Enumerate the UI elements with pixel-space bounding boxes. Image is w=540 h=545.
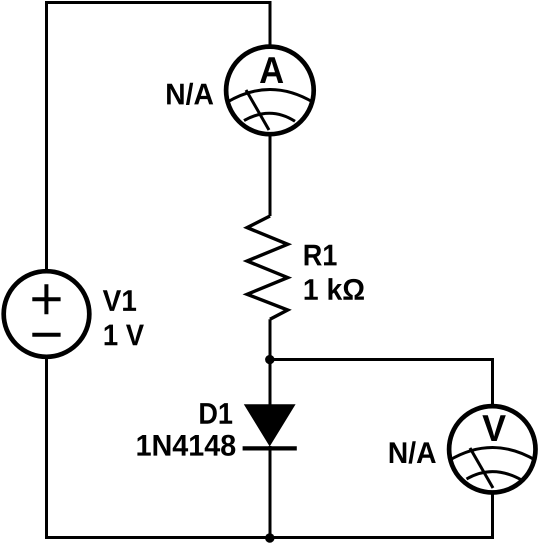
wire bottom loop: V1 bottom, bottom rail, up to voltmeter bottom — [47, 359, 493, 538]
ammeter face big arc — [227, 90, 314, 103]
label D1 — [200, 403, 232, 424]
label 1 V — [105, 325, 144, 346]
label 1N4148 — [137, 435, 235, 456]
wire diode cathode to bottom rail — [269, 446, 272, 538]
voltmeter letter V — [482, 415, 505, 441]
voltmeter circle — [449, 406, 535, 492]
V1 plus sign — [32, 284, 60, 314]
ammeter needle — [246, 90, 269, 130]
wire node to voltmeter top — [270, 360, 493, 405]
label N/A (voltmeter) — [390, 441, 436, 463]
wire top-left loop: V1 top to ammeter top — [47, 3, 271, 270]
resistor R1 zigzag — [247, 216, 288, 319]
voltmeter face big arc — [449, 448, 536, 461]
diode D1 triangle — [245, 405, 295, 446]
wire ammeter bottom to resistor top — [269, 136, 272, 217]
ammeter circle — [226, 47, 314, 135]
label N/A (ammeter) — [167, 83, 213, 105]
node junction dot top — [265, 355, 274, 364]
resistor label R1 — [305, 245, 337, 266]
ammeter letter A — [260, 57, 283, 83]
voltage source V1 circle — [4, 271, 90, 357]
V1 minus sign — [32, 333, 60, 337]
ammeter face small arc — [244, 113, 295, 121]
label V1 — [103, 290, 136, 311]
resistor value 1 kΩ — [305, 278, 364, 300]
voltmeter face small arc — [467, 472, 523, 481]
voltmeter needle — [470, 448, 493, 488]
wire resistor bottom to diode anode — [269, 319, 272, 405]
node junction dot bottom — [265, 533, 274, 542]
diode D1 cathode bar — [243, 446, 297, 450]
